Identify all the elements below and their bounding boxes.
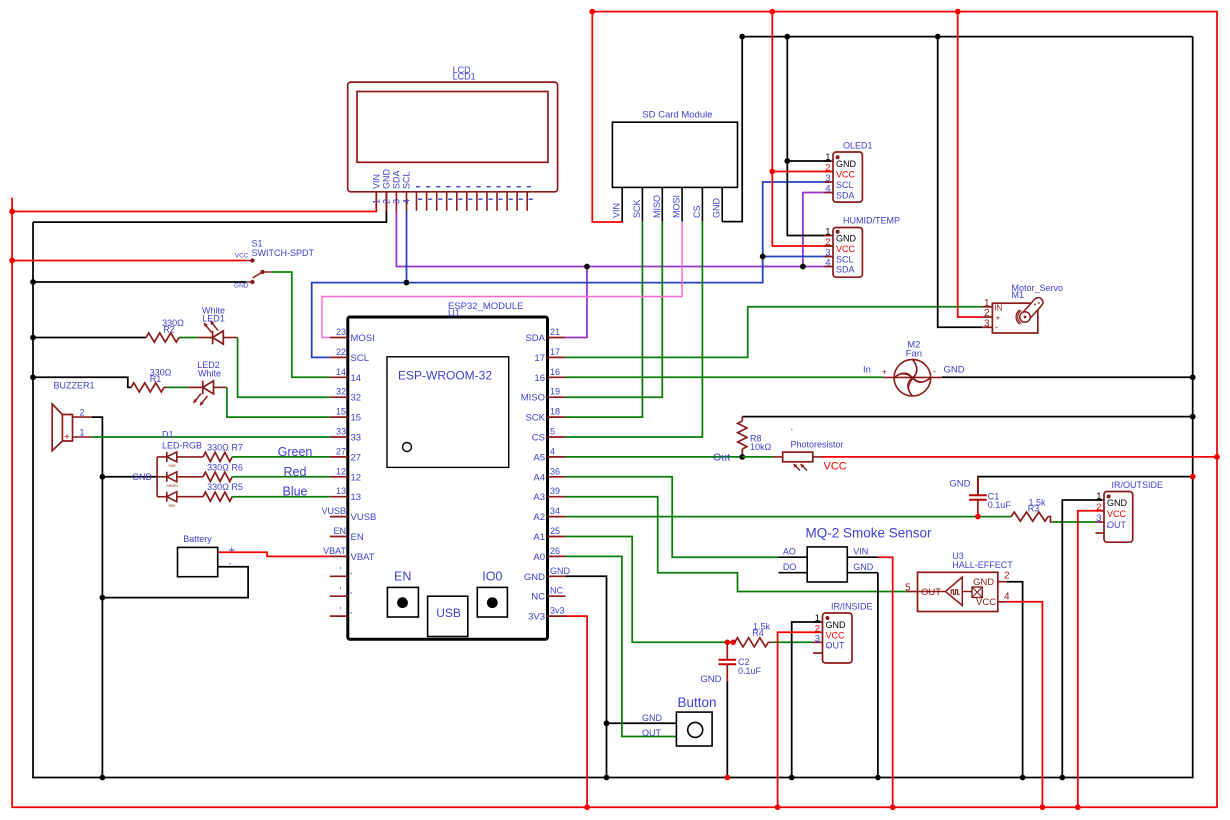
svg-text:15: 15	[351, 413, 362, 424]
svg-text:12: 12	[336, 466, 346, 476]
svg-text:EN: EN	[351, 532, 364, 543]
ESP32 left pin 32 stub	[330, 396, 348, 398]
LCD pin 5	[416, 192, 418, 211]
junction dot (587,266.5)	[584, 264, 590, 270]
ESP32 left pin 33 stub	[330, 436, 348, 438]
svg-text:SCL: SCL	[836, 180, 854, 190]
svg-text:2: 2	[382, 199, 392, 204]
wire hall GND (black)	[1007, 582, 1023, 778]
HUMID pin 3 stub	[824, 256, 833, 258]
wire photoresistor to VCC (red)	[822, 456, 1217, 458]
wire LCD GND (black)	[33, 192, 386, 222]
wire LED1 to ESP pin32 (green)	[238, 338, 330, 398]
svg-text:39: 39	[550, 486, 560, 496]
svg-text:26: 26	[550, 546, 560, 556]
svg-text:VUSB: VUSB	[351, 512, 377, 523]
node Out junction	[739, 454, 745, 460]
wire GND to D1 (black)	[102, 476, 157, 478]
wire LED2 out (maroon)	[214, 386, 227, 388]
wire ESP GND pin (black)	[566, 576, 607, 777]
svg-text:CS: CS	[692, 205, 702, 218]
svg-text:16: 16	[550, 367, 560, 377]
svg-text:D1: D1	[162, 430, 174, 440]
svg-text:4: 4	[825, 258, 830, 269]
junction dot (33,337.5)	[30, 335, 36, 341]
svg-text:5: 5	[905, 583, 911, 594]
wire SD MISO to ESP pin19 (green)	[566, 222, 663, 398]
svg-text:SD Card Module: SD Card Module	[642, 109, 712, 120]
MQ-2 pin DO	[779, 572, 808, 574]
svg-text:NC: NC	[531, 592, 545, 603]
svg-text:GND: GND	[712, 198, 722, 219]
ESP32 left pin 15 stub	[330, 416, 348, 418]
junction dot (102.4,777.5)	[100, 775, 106, 781]
SD card pin MOSI	[681, 187, 683, 221]
svg-text:GND: GND	[1107, 498, 1128, 508]
IR/INSIDE module body	[823, 613, 853, 663]
IR/OUTSIDE pin1 marker dot	[1107, 495, 1111, 499]
resistor R6 330ohm	[203, 472, 232, 481]
resistor R5 330ohm	[203, 492, 232, 501]
SD card pin CS	[701, 187, 703, 221]
servo pin 3 stub	[982, 326, 992, 328]
LCD pin 7	[436, 192, 438, 211]
junction dot red (777.6,807.2)	[775, 804, 781, 810]
servo pin 1 stub	[982, 306, 992, 308]
wire VCC bottom rail (red)	[12, 806, 1218, 808]
LCD pin 8	[446, 192, 448, 211]
svg-text:': '	[350, 591, 352, 601]
photoresistor lead right (maroon)	[813, 456, 822, 458]
svg-text:RGB: RGB	[169, 464, 176, 468]
ESP32 left pin 12 stub	[330, 476, 348, 478]
svg-text:Green: Green	[278, 445, 313, 459]
wire ESP pin39 to hall OUT (green)	[566, 497, 907, 592]
switch S1 lever	[253, 272, 263, 278]
IR/INSIDE pin 1 stub	[813, 621, 823, 623]
ESP32 left pin 14 stub	[330, 376, 348, 378]
junction dot (762.7,256.5)	[760, 254, 766, 260]
wire ESP pin4 to Out node (green)	[566, 456, 743, 458]
resistor R2 330ohm	[146, 333, 179, 342]
ESP32 right pin 21 stub	[548, 337, 566, 339]
wire ESP pin36 to MQ-2 AO (green)	[566, 477, 779, 557]
MQ-2 pin VIN	[847, 556, 878, 558]
svg-text:21: 21	[550, 327, 560, 337]
wire GND right border (black)	[1192, 37, 1194, 778]
servo rotation arc	[1018, 311, 1022, 324]
svg-text:3: 3	[392, 199, 402, 204]
wire SD SCK to ESP pin18 (green)	[566, 222, 643, 418]
svg-text:GND: GND	[700, 674, 721, 685]
svg-text:': '	[817, 640, 819, 650]
svg-text:A3: A3	[533, 492, 545, 503]
wire R1 to LED2 (green)	[167, 386, 189, 388]
wire R6 to ESP (green)	[232, 476, 330, 478]
IR/OUTSIDE pin 1 stub	[1096, 499, 1105, 501]
OLED1 pin 1 stub	[824, 160, 833, 162]
svg-text:-: -	[933, 367, 936, 377]
switch S1 VCC terminal	[250, 258, 254, 262]
svg-text:GND: GND	[973, 577, 994, 588]
LCD pin 10	[466, 192, 468, 211]
ESP32 right pin 36 stub	[548, 476, 566, 478]
svg-text:0.1uF: 0.1uF	[988, 500, 1012, 510]
junction dot (606.5,723.3)	[604, 720, 610, 726]
svg-text:27: 27	[336, 446, 346, 456]
IR/OUTSIDE module body	[1104, 492, 1133, 543]
svg-text:DO: DO	[783, 562, 797, 572]
svg-text:34: 34	[550, 506, 560, 516]
ESP32 left pin VUSB stub	[330, 516, 348, 518]
wire ESP 3v3 to VCC (red)	[566, 616, 588, 807]
buzzer BUZZER1 symbol	[52, 404, 72, 451]
wire SDA branch to ESP pin21 (purple)	[565, 267, 587, 338]
junction dot (791.7,777.5)	[789, 775, 795, 781]
ESP32 inner chip outline	[387, 357, 509, 468]
junction dot (406.5,282.6)	[404, 280, 410, 286]
svg-text:2: 2	[1004, 571, 1010, 582]
ESP32 right pin GND stub	[548, 575, 566, 577]
svg-text:SCL: SCL	[351, 353, 369, 364]
LCD pin 5 dash marks	[416, 186, 420, 187]
svg-text:VIN: VIN	[612, 203, 622, 218]
svg-text:': '	[340, 585, 342, 595]
SD card pin VIN	[621, 187, 623, 221]
wire buzzer pin1 to ESP pin33 (green)	[92, 436, 330, 438]
svg-text:1: 1	[80, 428, 85, 438]
junction dot red (12.1,260.5)	[9, 258, 15, 264]
svg-text:EN: EN	[394, 570, 411, 584]
wire hall VCC (red)	[1007, 602, 1043, 807]
wire IR/INSIDE GND (black)	[792, 622, 821, 778]
svg-text:GND: GND	[550, 566, 571, 576]
svg-text:330Ω R6: 330Ω R6	[207, 462, 243, 472]
junction dot red C2-GND	[724, 775, 730, 781]
svg-text:': '	[350, 571, 352, 581]
wire SCL right to OLED/HUMID (blue)	[407, 182, 832, 283]
wire R4 to IR/INSIDE OUT (green)	[773, 641, 813, 643]
svg-text:12: 12	[351, 472, 362, 483]
junction dot (1062.3,777.5)	[1059, 775, 1065, 781]
svg-text:BUZZER1: BUZZER1	[54, 381, 95, 391]
svg-text:14: 14	[351, 373, 362, 384]
capacitor C2 0.1uF	[726, 642, 728, 660]
ESP32 right pin 26 stub	[548, 555, 566, 557]
svg-text:IR/OUTSIDE: IR/OUTSIDE	[1112, 480, 1164, 490]
svg-text:S1: S1	[252, 239, 263, 249]
switch S1 GND terminal	[250, 280, 254, 284]
svg-text:OUT: OUT	[642, 728, 662, 738]
svg-text:USB: USB	[436, 606, 461, 620]
hall pin 5 stub	[907, 591, 918, 593]
wire SCL to ESP pin22 (blue)	[312, 283, 407, 358]
junction dot (1022.6,777.5)	[1020, 775, 1026, 781]
svg-text:EN: EN	[333, 526, 346, 536]
svg-text:SDA: SDA	[391, 170, 401, 189]
wire C2 to GND (black)	[726, 681, 728, 777]
wire IR/INSIDE VCC (red)	[778, 632, 821, 807]
wire GND mid rail to R8 (black)	[742, 416, 1192, 418]
junction dot (102.4,597.6)	[100, 595, 106, 601]
wire GND left vertical (black)	[32, 222, 34, 778]
svg-text:VCC: VCC	[836, 244, 856, 254]
svg-text:RED: RED	[169, 504, 176, 508]
svg-text:SCK: SCK	[525, 413, 545, 424]
photoresistor R9 body	[783, 452, 813, 462]
svg-text:R1: R1	[150, 374, 162, 384]
svg-text:VBAT: VBAT	[323, 546, 346, 556]
ESP32 left pin 22 stub	[330, 356, 348, 358]
wire R3 to IR/OUTSIDE OUT (green)	[1053, 521, 1096, 523]
svg-text:SCK: SCK	[632, 199, 642, 218]
junction dot (1192.7,377.3)	[1190, 374, 1196, 380]
LED D1 element 3	[157, 496, 167, 498]
svg-text:17: 17	[534, 353, 545, 364]
svg-text:IN: IN	[994, 303, 1002, 312]
svg-text:HUMID/TEMP: HUMID/TEMP	[843, 215, 900, 225]
LCD pin 2	[385, 192, 387, 211]
wire SCL net: LCD pin4 down (blue)	[406, 210, 408, 283]
svg-text:LED1: LED1	[202, 314, 225, 324]
hall crystal box	[972, 587, 982, 598]
IR/OUTSIDE pin 2 stub	[1096, 510, 1105, 512]
svg-text:GND: GND	[826, 620, 847, 630]
svg-text:M1: M1	[1012, 290, 1025, 300]
ESP32 left pin 23 stub	[330, 337, 348, 339]
svg-text:': '	[340, 605, 342, 615]
LCD pin 10 dash marks	[466, 186, 470, 187]
wire SD GND (black)	[722, 37, 742, 222]
OLED1 pin 4 stub	[824, 192, 833, 194]
svg-text:A4: A4	[533, 472, 545, 483]
IR/INSIDE pin 2 stub	[813, 631, 823, 633]
SD card module body	[612, 122, 737, 187]
IR/INSIDE pin 3 stub	[813, 641, 823, 643]
hall pin 4 stub	[998, 601, 1007, 603]
MQ-2 smoke sensor body	[807, 547, 847, 582]
svg-text:3: 3	[825, 173, 830, 184]
wire R4 lead (maroon)	[727, 641, 734, 643]
wire D1 to R5 (maroon)	[177, 496, 203, 498]
junction dot (787.3,36.6)	[784, 34, 790, 40]
LCD pin 13	[496, 192, 498, 211]
svg-text:4: 4	[825, 184, 830, 195]
SD card pin GND	[721, 187, 723, 221]
wire ESP pin34 to R3 (green)	[566, 516, 1012, 518]
OLED1 pin 3 stub	[824, 181, 833, 183]
svg-text:0.1uF: 0.1uF	[738, 666, 762, 676]
ESP32 module U1 body	[348, 317, 548, 639]
svg-text:SCL: SCL	[836, 255, 854, 265]
wire OLED/HUMID VCC vertical (red)	[772, 12, 831, 246]
svg-text:15: 15	[336, 407, 346, 417]
svg-text:ESP-WROOM-32: ESP-WROOM-32	[398, 369, 492, 383]
svg-text:1: 1	[825, 227, 830, 238]
ESP32 right pin 3v3 stub	[548, 615, 566, 617]
wire MQ-2 VIN to VCC (red)	[878, 557, 893, 807]
ESP32 IO0 button	[477, 587, 507, 617]
wire SD CS to ESP pin5 (green)	[566, 222, 703, 437]
resistor R7 330ohm	[203, 452, 232, 461]
wire VCC to S1 (red)	[12, 260, 246, 262]
svg-text:GND: GND	[381, 169, 391, 190]
junction dot (877.9,777.5)	[875, 775, 881, 781]
svg-text:IR/INSIDE: IR/INSIDE	[831, 602, 873, 612]
ESP32 left pin ' stub	[330, 575, 348, 577]
wire ESP pin26 to button OUT (green)	[566, 556, 677, 736]
wire D1 to R6 (maroon)	[177, 476, 203, 478]
wire SD MOSI to ESP pin23 (pink)	[322, 222, 682, 338]
wire GND bottom rail (black)	[32, 777, 1193, 779]
svg-text:VBAT: VBAT	[351, 552, 375, 563]
svg-text:+: +	[882, 367, 888, 378]
battery BT1	[178, 547, 218, 576]
wire VCC left vertical (red)	[11, 198, 13, 808]
wire Out to photoresistor (green)	[742, 456, 773, 458]
svg-text:LCD1: LCD1	[453, 72, 476, 82]
svg-text:MISO: MISO	[652, 195, 662, 218]
servo horn hub	[1020, 312, 1031, 323]
junction dot (33,282)	[30, 279, 36, 285]
LCD pin 12 dash marks	[487, 186, 491, 187]
wire R7 to ESP (green)	[232, 456, 330, 458]
HUMID pin1 marker dot	[836, 230, 840, 234]
LED D1 element 1	[157, 456, 167, 458]
hall pulse symbol	[951, 590, 959, 595]
photoresistor arrows	[794, 464, 801, 471]
LCD1 screen	[357, 92, 548, 163]
svg-text:17: 17	[550, 347, 560, 357]
svg-text:330Ω R7: 330Ω R7	[207, 442, 243, 452]
svg-text:A0: A0	[533, 552, 545, 563]
buzzer pin2 stub	[73, 416, 93, 418]
ESP32 right pin 16 stub	[548, 376, 566, 378]
servo horn arm	[1019, 296, 1045, 323]
svg-text:Button: Button	[677, 695, 716, 710]
wire ESP pin25 to R4 (green)	[566, 537, 728, 643]
servo M1 body	[992, 303, 1037, 333]
svg-text:13: 13	[336, 486, 346, 496]
svg-text:16: 16	[534, 373, 545, 384]
wire VCC top rail (red)	[592, 11, 1217, 13]
wire R2 to LED1 (green)	[180, 337, 198, 339]
wire VCC to servo + (red)	[958, 12, 982, 317]
wire VCC right border (red)	[1216, 11, 1218, 807]
svg-text:330Ω R5: 330Ω R5	[207, 482, 243, 492]
svg-text:A1: A1	[533, 532, 545, 543]
svg-text:Fan: Fan	[906, 349, 922, 360]
HUMID pin 1 stub	[824, 235, 833, 237]
junction dot (742.2,36.6)	[739, 34, 745, 40]
LED D1 element 2	[157, 476, 167, 478]
LCD pin 1	[375, 192, 377, 211]
LCD pin 14 dash marks	[507, 186, 511, 187]
LED1 emission arrows	[204, 323, 212, 333]
servo pin 2 stub	[982, 316, 992, 318]
junction dot red (592.3,11.6)	[589, 9, 595, 15]
svg-text:HALL-EFFECT: HALL-EFFECT	[952, 560, 1013, 570]
wire GND to R2 (black)	[33, 337, 146, 339]
svg-text:14: 14	[336, 367, 346, 377]
svg-text:22: 22	[336, 347, 346, 357]
ESP32 right pin 4 stub	[548, 456, 566, 458]
svg-text:19: 19	[550, 387, 560, 397]
wire IR/OUTSIDE GND (black)	[1062, 500, 1102, 778]
svg-text:VIN: VIN	[371, 174, 381, 189]
node R4 junction a	[725, 640, 731, 646]
fan M2 wire through (maroon)	[883, 376, 942, 378]
ESP32 left pin ' stub	[330, 595, 348, 597]
HUMID pin 2 stub	[824, 245, 833, 247]
svg-text:32: 32	[336, 387, 346, 397]
svg-text:OUT: OUT	[921, 587, 941, 598]
ESP32 left pin VBAT stub	[330, 555, 348, 557]
svg-text:GND: GND	[642, 713, 663, 723]
ESP32 right pin 5 stub	[548, 436, 566, 438]
svg-text:VIN: VIN	[853, 547, 868, 557]
wire fan to GND (black)	[942, 376, 1193, 378]
MQ-2 pin GND	[847, 572, 878, 574]
junction dot red (1192.7,476.6)	[1190, 474, 1196, 480]
LCD pin 7 dash marks	[436, 186, 440, 187]
ESP32 USB connector	[428, 596, 468, 636]
svg-text:GND: GND	[132, 472, 153, 482]
junction dot red (1077.8,807.2)	[1075, 804, 1081, 810]
svg-text:MOSI: MOSI	[351, 333, 375, 344]
resistor R3 1.5k	[1011, 512, 1048, 521]
HUMID pin 4 stub	[824, 266, 833, 268]
svg-text:32: 32	[351, 393, 362, 404]
LCD pin 9	[456, 192, 458, 211]
svg-text:AO: AO	[783, 547, 796, 557]
pushbutton body	[676, 712, 712, 746]
svg-text:SDA: SDA	[836, 265, 855, 275]
svg-text:VCC: VCC	[836, 170, 856, 180]
svg-text:In: In	[863, 365, 871, 376]
svg-text:VCC: VCC	[235, 253, 249, 260]
fan M2 body	[894, 359, 931, 396]
hall amp triangle	[945, 577, 962, 606]
IR/OUTSIDE pin 3 stub	[1096, 521, 1105, 523]
svg-text:': '	[350, 611, 352, 621]
LCD pin 8 dash marks	[446, 186, 450, 187]
wire R4 to IR/INSIDE lead (maroon)	[768, 641, 772, 643]
hall OUT lead line	[918, 591, 946, 593]
LCD pin 16	[526, 192, 528, 211]
IR/INSIDE pin 4 stub	[813, 652, 823, 654]
svg-text:Blue: Blue	[282, 485, 307, 499]
svg-text:4: 4	[402, 199, 412, 204]
svg-text:MOSI: MOSI	[672, 195, 682, 218]
wire LCD VIN to VCC (red)	[12, 192, 376, 212]
junction dot (937.7,36.6)	[935, 34, 941, 40]
svg-text:A5: A5	[533, 452, 545, 463]
wire GND top rail (black)	[742, 36, 1192, 38]
svg-text:Battery: Battery	[183, 534, 212, 544]
LCD pin 6	[426, 192, 428, 211]
SD card pin SCK	[641, 187, 643, 221]
buzzer pin1 stub	[73, 436, 93, 438]
ESP32 EN button	[387, 587, 418, 617]
svg-text:3v3: 3v3	[550, 606, 565, 616]
svg-text:23: 23	[336, 327, 346, 337]
svg-text:VCC: VCC	[826, 630, 846, 640]
svg-text:GND: GND	[836, 159, 857, 169]
LCD pin 15 dash marks	[517, 186, 521, 187]
wire OLED1 VCC branch (red)	[772, 171, 831, 173]
ESP32 right pin 34 stub	[548, 516, 566, 518]
